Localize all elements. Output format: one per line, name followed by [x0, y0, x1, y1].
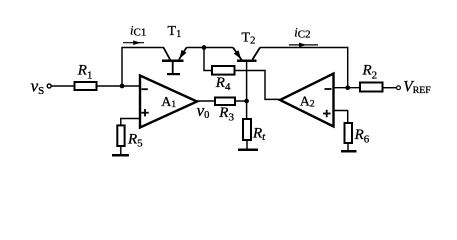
resistor Rt [243, 119, 251, 140]
T2 base bar [237, 60, 257, 63]
T2 base lead down to R3/Rt node [246, 62, 248, 101]
wire R2 to VREF terminal [383, 87, 397, 89]
T2 emitter arrow [234, 50, 242, 59]
transistor T1 [162, 48, 187, 76]
ground at T1 base [167, 73, 180, 75]
resistor R6 [345, 123, 353, 143]
T1 collector lead [164, 48, 171, 60]
current arrow iC2 [289, 43, 318, 48]
wire T2 collector to right corner [260, 47, 348, 49]
wire R5 to ground [120, 146, 122, 155]
transistor T2 [233, 48, 260, 102]
ground below Rt [238, 149, 258, 152]
wire A1 plus input to R5 [121, 119, 140, 127]
node junction dot at A1 minus [120, 84, 125, 89]
node VREF output terminal [397, 86, 401, 90]
T2 emitter lead [233, 48, 242, 60]
wire right corner down to A2 minus row [347, 48, 349, 88]
resistor R5 [117, 125, 124, 146]
wire R3 to node [235, 100, 247, 102]
T1 base lead [172, 62, 174, 73]
wire A2 minus input to R2 [334, 87, 361, 89]
A1 plus sign [141, 112, 148, 114]
wire junction up to top rail [121, 48, 123, 87]
resistor R3 [215, 98, 235, 106]
svg-text:iC2: iC2 [294, 25, 310, 40]
wire R4 to A2 output [234, 71, 280, 100]
node junction dot at A2 minus / R2 [345, 85, 350, 90]
wire A2 plus input to R6 [334, 111, 348, 124]
T1 base bar [162, 60, 184, 63]
A2 plus sign [323, 113, 331, 115]
node junction dot R3/Rt/T2-base [244, 99, 249, 104]
A1 minus sign [141, 88, 147, 90]
T1 emitter arrow [179, 50, 186, 59]
T1 emitter lead [179, 48, 187, 60]
op-amp A1 [140, 76, 197, 128]
node vS input terminal [47, 84, 51, 88]
wire T1 emitter to common node to T2 emitter [187, 47, 234, 49]
svg-text:iC1: iC1 [130, 23, 146, 38]
wire R1 to A1 minus input [97, 85, 141, 87]
op-amp A2 [280, 74, 334, 127]
ground below R5 [112, 154, 129, 157]
current arrow iC1 [123, 40, 144, 45]
ground below R6 [341, 150, 357, 153]
T2 collector lead [253, 48, 261, 60]
wire A1 output v0 to R3 [197, 100, 215, 102]
wire R6 to ground [347, 143, 349, 151]
wire vS to R1 [52, 85, 75, 87]
node common emitters junction dot [202, 45, 207, 50]
wire top rail to T1 collector [121, 47, 164, 49]
A2 minus sign [325, 88, 332, 90]
resistor R4 [212, 66, 235, 75]
wire node down to Rt [246, 101, 248, 119]
wire Rt to ground [246, 140, 248, 149]
resistor R2 [360, 83, 383, 92]
wire common node down to R4 [204, 48, 212, 71]
resistor R1 [75, 82, 97, 90]
